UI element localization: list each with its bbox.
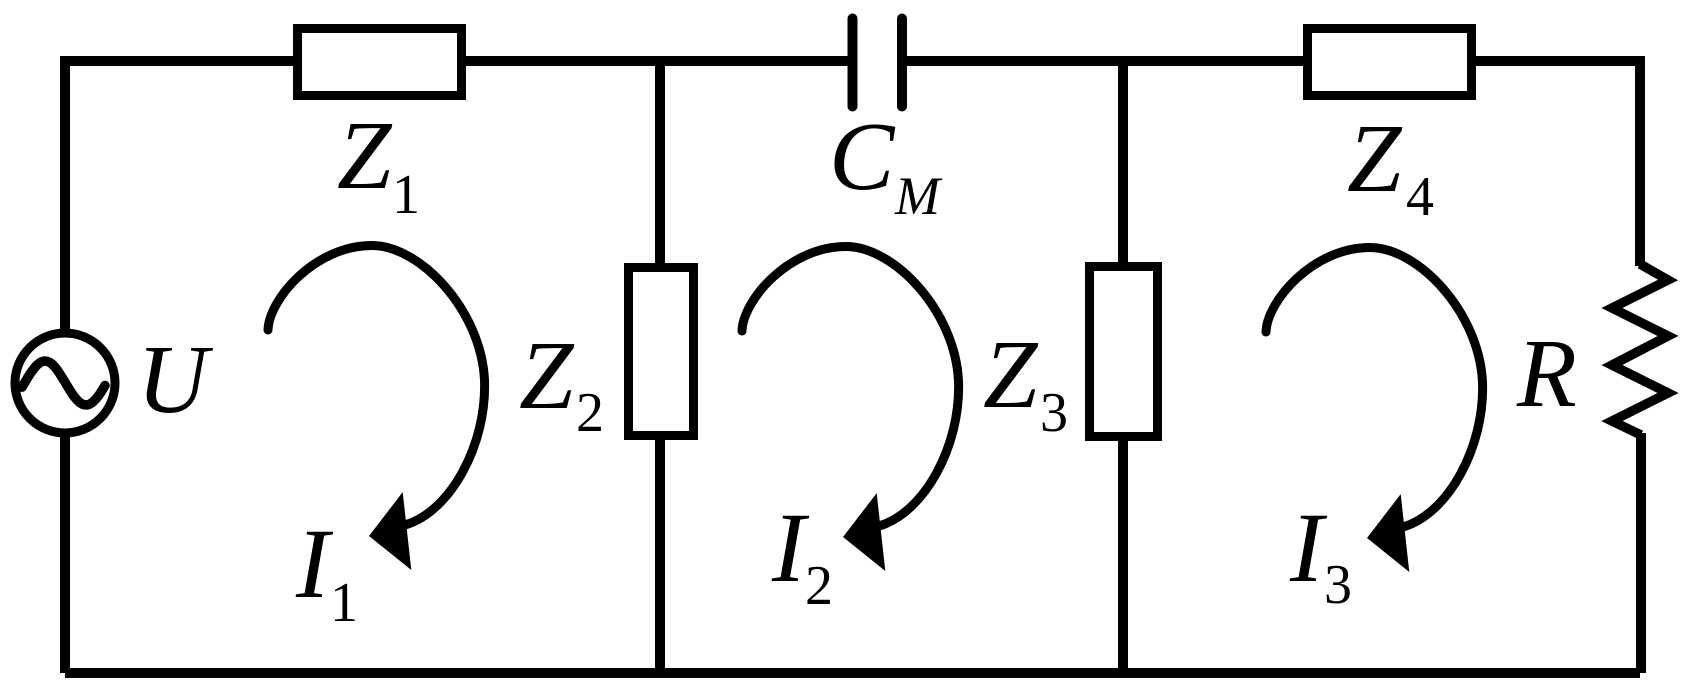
loop arrow I3 head — [1367, 494, 1409, 572]
label U — [137, 326, 214, 434]
wire left upper — [60, 56, 70, 331]
svg-text:C: C — [829, 103, 896, 211]
label I3 — [1289, 492, 1352, 616]
svg-text:3: 3 — [1040, 382, 1068, 444]
resistor Z4 — [1308, 29, 1472, 96]
label Z2 — [519, 322, 604, 444]
wire top left segment — [65, 56, 853, 66]
impedance Z2 — [629, 268, 694, 436]
svg-text:U: U — [137, 326, 214, 434]
loop arrow I2 arc — [742, 247, 959, 527]
resistor Z1 — [298, 29, 462, 96]
wire left lower — [60, 436, 70, 673]
capacitor CM — [853, 19, 903, 107]
impedance Z3 — [1090, 267, 1158, 437]
label Z4 — [1347, 105, 1434, 228]
wire bottom — [65, 668, 1640, 678]
svg-text:2: 2 — [805, 555, 833, 617]
label Z1 — [337, 102, 420, 226]
svg-text:4: 4 — [1406, 166, 1434, 228]
svg-text:Z: Z — [1347, 105, 1403, 213]
loop arrow I1 head — [369, 492, 411, 570]
wire Z3 branch upper — [1118, 61, 1128, 270]
source U sine — [22, 361, 105, 405]
loop arrow I3 arc — [1266, 248, 1483, 528]
wire Z2 branch upper — [655, 61, 665, 270]
svg-text:I: I — [1289, 492, 1328, 603]
svg-text:1: 1 — [392, 164, 420, 226]
svg-text:Z: Z — [519, 322, 575, 430]
svg-text:M: M — [894, 166, 943, 226]
svg-text:1: 1 — [330, 572, 358, 634]
wire right lower — [1636, 433, 1646, 673]
svg-text:Z: Z — [337, 102, 393, 210]
wire Z2 branch lower — [655, 433, 665, 673]
loop arrow I1 arc — [268, 246, 485, 526]
svg-text:2: 2 — [576, 382, 604, 444]
label Z3 — [983, 321, 1068, 444]
svg-text:3: 3 — [1324, 554, 1352, 616]
wire right upper — [1635, 56, 1645, 266]
svg-text:Z: Z — [983, 321, 1039, 429]
svg-text:I: I — [295, 508, 334, 619]
wire Z3 branch lower — [1118, 433, 1128, 673]
label CM — [829, 103, 943, 226]
wire top right segment — [902, 56, 1640, 66]
svg-text:R: R — [1516, 320, 1577, 428]
loop arrow I2 head — [843, 493, 885, 571]
label R — [1516, 320, 1577, 428]
label I2 — [771, 492, 833, 617]
resistor R zigzag — [1612, 264, 1668, 435]
source U circle — [15, 333, 115, 433]
label I1 — [295, 508, 358, 634]
